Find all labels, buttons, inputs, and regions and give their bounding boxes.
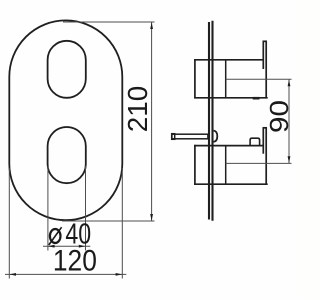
svg-text:210: 210	[122, 86, 153, 133]
extension line: upper handle axis for 90	[226, 78, 292, 80]
lower handle blade: left edge	[262, 128, 264, 154]
extension line: oval right for ø40	[85, 166, 87, 251]
lever hub bump on plate	[214, 131, 218, 142]
upper valve body: top edge	[194, 59, 263, 61]
arrow down (210 bottom)	[150, 214, 153, 221]
side view: wall plate edge right line	[211, 21, 213, 221]
lower handle blade: top cap	[263, 127, 268, 129]
front view: wall plate (stadium outline)	[9, 20, 122, 220]
arrow up (90 top)	[288, 80, 291, 87]
label ø40: diameter symbol bowl	[50, 229, 61, 243]
upper valve body: inner sleeve line	[225, 60, 227, 98]
arrow down (90 bottom)	[288, 156, 291, 163]
dimension line ø40	[43, 245, 90, 247]
lower valve body: top edge	[194, 145, 263, 147]
extension line: plate left for 120	[8, 168, 10, 279]
upper valve body: left edge	[194, 59, 196, 99]
lower handle blade: right edge	[265, 128, 267, 185]
arrow left (ø40)	[48, 245, 55, 248]
arrow up (210 top)	[150, 22, 153, 29]
temperature lever (pointing left)	[172, 134, 208, 139]
front view: upper control opening (oval)	[48, 41, 86, 98]
extension line: plate bottom to 210 dim	[62, 220, 155, 222]
upper valve body: bottom edge	[194, 97, 268, 99]
arrow right (ø40)	[79, 245, 86, 248]
front view: lower control opening (oval)	[48, 127, 86, 183]
lower stop knob	[250, 138, 260, 145]
extension line: oval left for ø40	[47, 166, 49, 251]
upper handle blade: left edge	[262, 42, 264, 70]
side view: wall plate edge left line	[208, 22, 210, 220]
lower valve body: bottom edge	[194, 183, 268, 185]
extension line: plate right for 120	[121, 168, 123, 279]
lower valve body: inner sleeve line	[225, 146, 227, 185]
extension line: plate top to 210 dim	[63, 21, 155, 23]
lever end cap	[172, 134, 175, 140]
dimension line 120	[5, 273, 126, 275]
dimension line 210	[151, 22, 153, 220]
arrow left (120)	[9, 273, 16, 276]
lower valve body: left edge	[194, 145, 196, 185]
svg-text:120: 120	[53, 245, 97, 278]
dimension line 90	[288, 80, 290, 163]
svg-text:90: 90	[264, 100, 294, 133]
upper handle blade: top cap	[263, 40, 268, 42]
label ø40: diameter symbol slash	[49, 227, 62, 245]
upper body set screw	[253, 97, 260, 100]
arrow right (120)	[116, 273, 123, 276]
extension line: lower handle axis for 90	[226, 162, 292, 164]
upper handle blade: right edge	[265, 41, 267, 98]
